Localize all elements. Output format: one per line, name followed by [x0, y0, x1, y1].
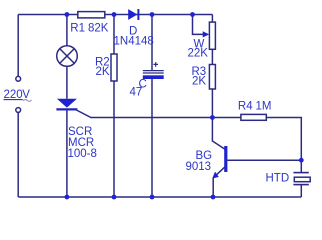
svg-text:2K: 2K — [192, 76, 206, 88]
wire left rail upper — [17, 15, 19, 77]
lamp EL — [57, 46, 78, 67]
wire gate rail to R4 — [212, 117, 241, 119]
transistor BG 9013 — [212, 118, 226, 179]
resistor R4 — [241, 114, 266, 120]
svg-text:HTD: HTD — [266, 173, 290, 185]
node base HTD — [299, 158, 304, 163]
node top C — [150, 12, 155, 17]
node bottom emitter — [211, 195, 216, 200]
terminal lower 220V — [16, 108, 21, 113]
node top R2 — [112, 12, 117, 17]
potentiometer W 22K — [209, 22, 215, 49]
wire top rail — [18, 14, 212, 16]
wiper arrowhead — [203, 31, 210, 37]
svg-text:220: 220 — [4, 89, 23, 101]
wire bottom rail — [18, 196, 301, 198]
wire HTD bottom — [300, 185, 302, 197]
wire C top — [151, 15, 153, 71]
svg-text:82K: 82K — [88, 23, 109, 35]
node bottom R2 — [112, 195, 117, 200]
svg-text:1N4148: 1N4148 — [114, 36, 154, 48]
node gate rail — [210, 115, 215, 120]
svg-text:100-8: 100-8 — [68, 148, 97, 160]
svg-text:1M: 1M — [256, 101, 272, 113]
resistor R2 — [111, 54, 117, 81]
buzzer HTD — [293, 173, 310, 185]
svg-text:R1: R1 — [70, 23, 85, 35]
node top lamp — [65, 12, 70, 17]
svg-text:2K: 2K — [96, 66, 110, 78]
wire lamp top — [66, 15, 68, 46]
node bottom SCR — [65, 195, 70, 200]
svg-text:47: 47 — [130, 87, 143, 99]
wire wiper W — [193, 15, 205, 35]
wire C bottom — [151, 79, 153, 197]
node top wiper — [190, 12, 195, 17]
node bottom C — [150, 195, 155, 200]
svg-text:R4: R4 — [238, 101, 253, 113]
wire R3 bottom — [211, 89, 213, 118]
SCR MCR 100-8 — [56, 99, 77, 110]
resistor R1 — [78, 12, 105, 18]
wire pot to R3 — [211, 49, 213, 64]
svg-text:22K: 22K — [188, 48, 209, 60]
wire SCR gate — [76, 110, 212, 118]
resistor R3 — [209, 65, 215, 90]
svg-text:9013: 9013 — [186, 161, 212, 173]
wire R4 to right column — [266, 118, 301, 173]
wire base to right — [227, 159, 301, 161]
wire pot top drop — [211, 15, 213, 23]
wire R2 top — [113, 15, 115, 55]
wire emitter down — [212, 178, 214, 197]
capacitor C 47 — [143, 62, 164, 79]
wire SCR cathode down — [66, 111, 68, 198]
wire R2 bottom — [113, 81, 115, 197]
terminal upper 220V — [16, 76, 21, 81]
wire left rail lower — [17, 113, 19, 197]
AC wave under V — [23, 100, 32, 102]
diode D 1N4148 — [128, 9, 138, 20]
wire lamp to SCR — [66, 66, 68, 98]
